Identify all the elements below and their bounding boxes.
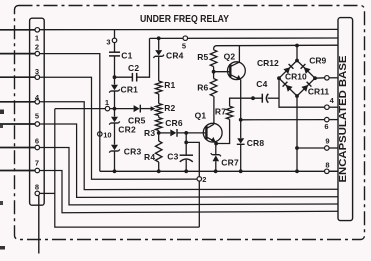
junction R3/R4/CR6 xyxy=(157,131,161,135)
diode CR12 xyxy=(257,58,293,74)
wire external lead to terminal 3 xyxy=(0,76,35,78)
resistor R4 xyxy=(144,141,162,162)
label terminal 2 xyxy=(35,43,39,52)
wire CR6 to Q1 base xyxy=(178,132,206,134)
svg-text:1: 1 xyxy=(35,34,39,43)
svg-text:Q2: Q2 xyxy=(224,52,236,62)
left terminal strip xyxy=(30,18,45,205)
wire ground bus xyxy=(100,170,338,172)
title UNDER FREQ RELAY xyxy=(140,14,229,25)
encapsulated base strip xyxy=(338,18,353,221)
zener diode CR7 xyxy=(211,153,239,168)
junction C4 lead xyxy=(251,96,255,100)
wire pin 6 rail xyxy=(241,119,325,121)
wire C1 to junction xyxy=(114,57,116,78)
wire external lead to terminal 2 xyxy=(0,53,35,55)
svg-text:CR6: CR6 xyxy=(165,118,183,128)
wire external lead to terminal 4 xyxy=(0,101,35,103)
svg-text:CR11: CR11 xyxy=(308,86,330,96)
label terminal 3 xyxy=(35,67,39,76)
svg-text:R3: R3 xyxy=(144,128,155,138)
wire R3 junction to CR6 xyxy=(159,132,171,134)
node pin 9 xyxy=(325,137,330,151)
label terminal 7 xyxy=(35,159,39,168)
zener diode CR4 xyxy=(153,50,183,61)
svg-text:CR10: CR10 xyxy=(285,72,307,82)
wire Q2 emitter drop xyxy=(240,79,242,138)
junction C1/C2/CR1 xyxy=(113,75,117,79)
capacitor C2 xyxy=(128,63,139,82)
junction CR column on node1 rail xyxy=(113,107,117,111)
svg-text:5: 5 xyxy=(35,111,39,120)
svg-text:R2: R2 xyxy=(164,103,175,113)
svg-text:4: 4 xyxy=(35,93,40,102)
node 1 xyxy=(105,98,110,111)
bridge edge top-left xyxy=(279,61,297,79)
label terminal 1 xyxy=(35,34,39,43)
junction bridge left vertex xyxy=(277,76,281,80)
zener diode CR1 xyxy=(109,84,138,94)
wire C2 to top rail 2 xyxy=(137,38,150,77)
label terminal 5 xyxy=(35,111,39,120)
junction ground bus xyxy=(184,169,188,173)
wire node 5 rail xyxy=(150,37,339,39)
junction Q1 emitter xyxy=(214,142,218,146)
svg-text:R1: R1 xyxy=(164,80,175,90)
svg-text:C4: C4 xyxy=(256,79,267,89)
wire junction to R6 xyxy=(213,72,215,79)
junction bridge top vertex xyxy=(295,59,299,63)
node pin 4 xyxy=(325,96,335,109)
svg-text:CR9: CR9 xyxy=(309,56,326,66)
label terminal 8 xyxy=(35,183,39,192)
wire R5 to junction xyxy=(213,67,215,72)
svg-text:5: 5 xyxy=(182,41,186,50)
svg-text:8: 8 xyxy=(35,183,39,192)
terminal 2 xyxy=(35,51,40,56)
junction bridge top on rail 3 xyxy=(295,44,299,48)
zener diode CR2 xyxy=(109,117,136,135)
wire C3 junction to node2 drop xyxy=(186,142,199,227)
diode CR6 xyxy=(165,118,183,137)
svg-text:2: 2 xyxy=(35,43,39,52)
bridge edge bottom-left xyxy=(279,78,297,96)
wire bridge bottom drop xyxy=(296,96,298,171)
wire right vertex to test point xyxy=(315,77,325,79)
junction bridge bottom vertex xyxy=(295,94,299,98)
svg-text:3: 3 xyxy=(106,38,110,47)
svg-text:6: 6 xyxy=(35,136,39,145)
terminal 8 xyxy=(35,191,40,196)
wire Q1 emitter to CR7 xyxy=(215,144,217,155)
wire node 3 stub xyxy=(114,30,116,38)
zener diode CR3 xyxy=(109,145,141,157)
wire C3 top branch xyxy=(185,133,187,155)
node pin 6 xyxy=(324,117,329,131)
svg-text:Q1: Q1 xyxy=(195,110,207,120)
terminal 4 xyxy=(35,100,40,105)
capacitor C3 xyxy=(167,152,193,162)
wire CR8 to ground bus xyxy=(240,144,242,171)
wiper arrow into R2 xyxy=(151,106,156,111)
transistor Q2 xyxy=(224,52,246,80)
wire node 1 rail xyxy=(55,108,134,110)
wire terminal 8 external drop xyxy=(38,196,40,254)
node 2 xyxy=(197,175,207,184)
wire Q1 collector to R6 xyxy=(213,96,215,124)
wire R3 to junction xyxy=(158,131,160,133)
wire CR7 to ground bus xyxy=(215,161,217,171)
wire R1 to R2 xyxy=(158,94,160,104)
svg-text:CR8: CR8 xyxy=(247,138,265,148)
scan mark xyxy=(0,125,3,129)
terminal 1 xyxy=(35,28,40,33)
wire node3 to C1 xyxy=(114,43,116,52)
diode CR9 xyxy=(301,56,327,74)
wire terminal 8 stub xyxy=(40,192,55,194)
wire emitter to R7 xyxy=(230,98,241,106)
terminal 5 xyxy=(35,122,40,127)
wire terminal 2 route to ground bus xyxy=(40,54,100,172)
wire Q2 base xyxy=(214,71,231,73)
node pin 8 xyxy=(325,160,330,173)
svg-text:UNDER FREQ RELAY: UNDER FREQ RELAY xyxy=(140,14,229,25)
wire Q2 collector to rail 3 xyxy=(238,46,240,62)
wire external lead to terminal 5 xyxy=(0,123,35,125)
resistor R6 xyxy=(197,79,217,97)
wire junction to CR1 xyxy=(114,77,116,84)
wire pin 4 to strip xyxy=(329,106,338,108)
wire pin 9 rail xyxy=(297,147,325,149)
node test point right xyxy=(325,76,330,81)
wire CR4 to R1 xyxy=(158,57,160,82)
resistor R3 xyxy=(144,118,162,139)
junction ground bus xyxy=(239,169,243,173)
wire terminal 5 route to base pin xyxy=(40,124,339,197)
wire external lead to terminal 6 xyxy=(0,147,35,149)
svg-text:1: 1 xyxy=(105,98,109,107)
svg-text:4: 4 xyxy=(330,96,335,105)
terminal 3 xyxy=(35,75,40,80)
terminal 6 xyxy=(35,145,40,150)
svg-text:10: 10 xyxy=(103,131,111,140)
junction node2 branch xyxy=(184,141,188,145)
bridge edge top-right xyxy=(297,61,315,79)
svg-text:CR2: CR2 xyxy=(118,124,136,134)
resistor R2 xyxy=(155,103,175,115)
resistor R1 xyxy=(155,80,175,94)
svg-text:R7: R7 xyxy=(215,107,226,117)
svg-text:R6: R6 xyxy=(197,83,208,93)
junction bridge right vertex xyxy=(313,76,317,80)
wire R2 to R3 xyxy=(158,116,160,118)
wire external lead to terminal 7 xyxy=(0,170,35,172)
svg-text:3: 3 xyxy=(35,67,39,76)
wire CR1 to node1 rail xyxy=(114,91,116,108)
scan mark xyxy=(0,246,5,250)
label encapsulated base xyxy=(337,56,349,183)
wire R7 to Q1 emitter xyxy=(216,119,230,143)
bridge edge bottom-right xyxy=(297,78,315,96)
wire emitter to C4 xyxy=(241,97,262,99)
junction R5/R6/Q2 base xyxy=(212,70,216,74)
wire terminal 7 route to base pin xyxy=(40,171,339,213)
wire CR3 to ground bus xyxy=(114,151,116,171)
svg-text:2: 2 xyxy=(202,175,206,184)
wire terminal 4 route to base pin xyxy=(40,102,339,190)
junction CR6/C3 xyxy=(184,131,188,135)
junction CR4 top xyxy=(157,36,161,40)
svg-text:CR1: CR1 xyxy=(121,84,139,94)
wire CR2 to CR3 xyxy=(114,123,116,144)
wire node1 rail to CR2 xyxy=(114,109,116,117)
svg-text:C2: C2 xyxy=(128,63,139,73)
wire terminal 6 route to base pin xyxy=(40,148,339,205)
node 10 xyxy=(98,131,112,140)
label terminal 6 xyxy=(35,136,39,145)
wire CR5 to R2 wiper xyxy=(141,108,153,110)
wire pin 8 to strip xyxy=(329,170,338,172)
svg-text:CR4: CR4 xyxy=(166,51,184,61)
svg-text:R4: R4 xyxy=(144,152,155,162)
wire test point to strip xyxy=(329,77,338,79)
diode CR5 xyxy=(128,105,146,126)
svg-text:ENCAPSULATED BASE: ENCAPSULATED BASE xyxy=(337,56,349,183)
svg-text:R5: R5 xyxy=(197,52,208,62)
svg-text:C3: C3 xyxy=(167,152,178,162)
svg-text:7: 7 xyxy=(35,159,39,168)
wire common rail node1/T8/node2 xyxy=(55,109,200,228)
wire junction to C2 xyxy=(115,76,133,78)
wire bridge top lead xyxy=(296,45,298,60)
svg-text:CR3: CR3 xyxy=(124,147,142,157)
wire C3 to ground bus xyxy=(185,160,187,172)
junction emitter/CR8/pin6 xyxy=(239,118,243,122)
svg-text:CR7: CR7 xyxy=(221,158,239,168)
scan mark xyxy=(0,201,3,205)
scan mark xyxy=(0,110,4,115)
terminal 7 xyxy=(35,168,40,173)
svg-text:CR12: CR12 xyxy=(257,58,279,68)
wire C4 to bridge left vertex xyxy=(268,97,279,99)
node 5 xyxy=(182,36,188,50)
svg-text:9: 9 xyxy=(325,137,329,146)
resistor R5 xyxy=(197,50,217,67)
svg-text:6: 6 xyxy=(324,122,328,131)
transistor Q1 xyxy=(195,110,223,142)
wire pin 6 to strip xyxy=(329,119,338,121)
wire junction to R4 xyxy=(158,133,160,141)
wire pin 9 to strip xyxy=(329,147,338,149)
svg-text:C1: C1 xyxy=(121,51,132,61)
node 3 xyxy=(106,38,116,47)
wire R4 to ground bus xyxy=(158,162,160,171)
wire CR4 top lead xyxy=(158,38,160,50)
junction ground bus xyxy=(295,169,299,173)
junction ground bus xyxy=(113,169,117,173)
label terminal 4 xyxy=(35,93,40,102)
svg-text:8: 8 xyxy=(325,160,329,169)
junction bridge drop pin 9 xyxy=(295,146,299,150)
junction ground bus xyxy=(157,169,161,173)
diode CR11 xyxy=(301,82,329,97)
wire left vertex to pin 4 xyxy=(279,78,325,107)
capacitor C1 xyxy=(109,51,133,61)
diode CR8 xyxy=(237,138,265,148)
resistor R7 xyxy=(215,106,233,119)
capacitor C4 xyxy=(256,79,268,103)
wire top rail 3 xyxy=(214,45,338,50)
wire terminal 1 top rail xyxy=(40,28,339,30)
wire terminal 3 route to node 2 xyxy=(40,77,198,179)
wire external lead to terminal 1 xyxy=(0,29,35,31)
diode CR10 xyxy=(283,72,307,92)
junction ground bus xyxy=(214,169,218,173)
